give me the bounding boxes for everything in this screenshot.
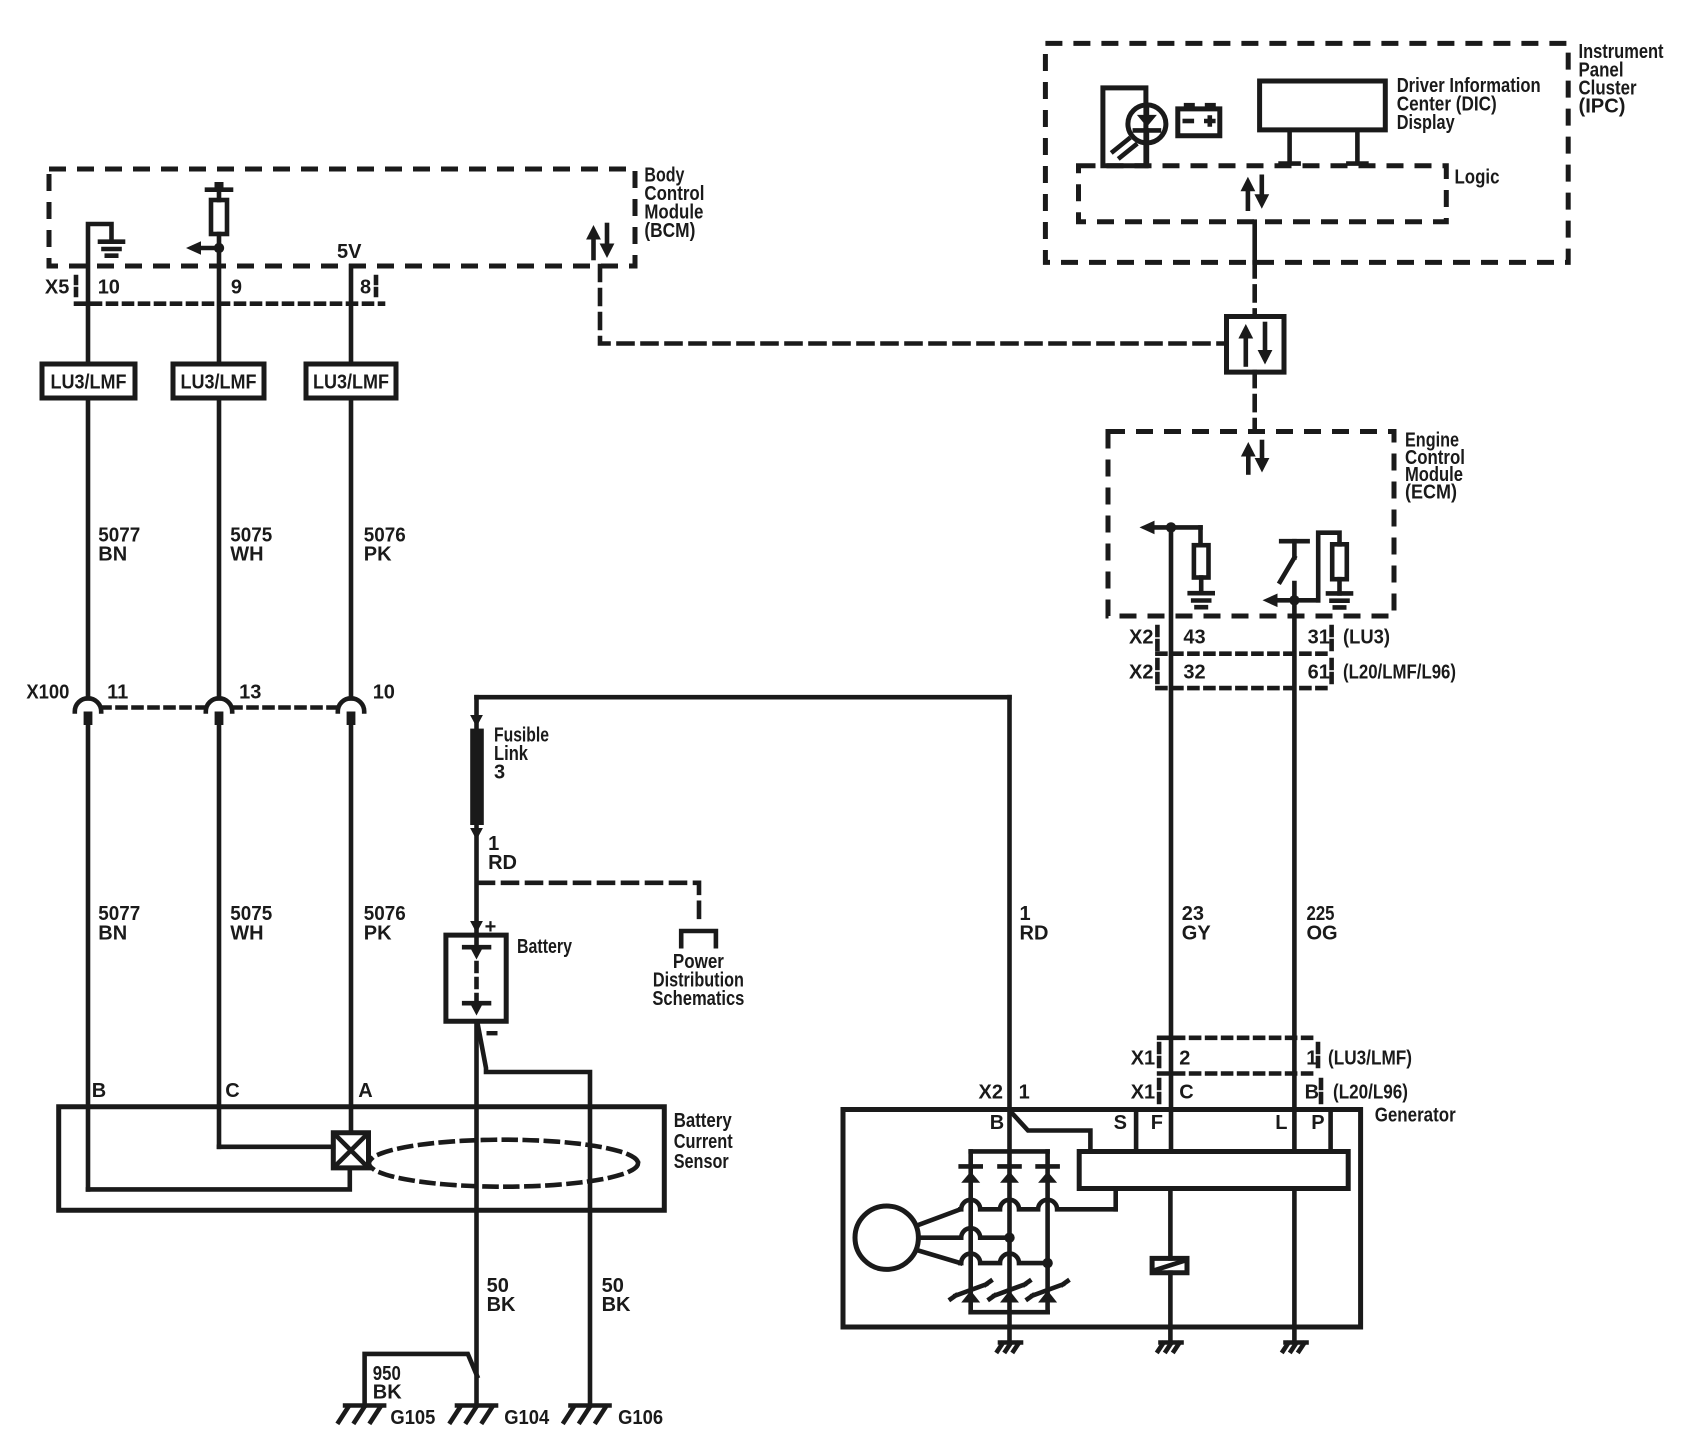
wire 5075 WH (lower run) <box>217 725 222 1147</box>
svg-text:BK: BK <box>602 1294 631 1316</box>
svg-text:WH: WH <box>230 544 263 566</box>
wire terminal L to generator ground <box>1292 1189 1297 1343</box>
wire 50 BK to G106 (through sensor) <box>588 1210 593 1405</box>
label circuit 23 GY <box>1182 903 1212 945</box>
battery telltale icon <box>1178 103 1220 136</box>
generator box <box>843 1110 1361 1328</box>
svg-text:P: P <box>1311 1112 1324 1134</box>
ground (generator internal, B) <box>1000 1340 1021 1345</box>
wire 5077 BN (upper run) <box>86 398 91 698</box>
svg-text:(LU3): (LU3) <box>1343 626 1390 648</box>
svg-text:Schematics: Schematics <box>652 988 744 1010</box>
svg-text:B: B <box>1305 1082 1319 1104</box>
wire 5075 WH (upper run) <box>217 398 222 698</box>
connector terminal pin 10 <box>338 698 364 725</box>
svg-text:61: 61 <box>1308 662 1330 684</box>
svg-text:G106: G106 <box>618 1407 663 1429</box>
svg-text:9: 9 <box>231 277 242 299</box>
svg-text:BK: BK <box>373 1382 402 1404</box>
label ECM name <box>1405 430 1465 504</box>
label battery minus <box>487 1031 498 1035</box>
wire ECM pin 43/32 (23 GY) <box>1169 527 1174 1151</box>
label circuit 5075 WH (lower) <box>230 903 272 945</box>
svg-text:(BCM): (BCM) <box>644 220 695 242</box>
connector X2 rows (ECM) <box>1157 627 1331 688</box>
battery <box>446 935 506 1021</box>
svg-text:1: 1 <box>1019 1082 1030 1104</box>
svg-text:Current: Current <box>674 1131 733 1153</box>
wire sensor pin C internal run <box>219 1145 333 1150</box>
logic box (IPC), dashed <box>1079 166 1447 222</box>
svg-text:X100: X100 <box>26 682 69 704</box>
battery current sensor box <box>59 1107 665 1210</box>
svg-text:BN: BN <box>98 544 127 566</box>
fusible link 3 <box>470 729 484 825</box>
svg-text:B: B <box>92 1080 106 1102</box>
svg-text:BK: BK <box>487 1294 516 1316</box>
rectifier diode top 2 <box>1000 1166 1020 1182</box>
label Driver Information Center (DIC) Display <box>1397 75 1541 134</box>
svg-text:1: 1 <box>1306 1048 1317 1070</box>
svg-text:B: B <box>990 1112 1004 1134</box>
module box Body Control Module (BCM), dashed <box>49 169 635 266</box>
svg-text:8: 8 <box>360 277 371 299</box>
ground (inside BCM, pin 10 circuit) <box>88 224 123 364</box>
svg-text:Generator: Generator <box>1375 1105 1456 1127</box>
label circuit 5077 BN (lower) <box>98 903 140 945</box>
label Fusible Link 3 <box>494 725 549 784</box>
wire ECM pin 31/61 (225 OG) <box>1292 583 1297 1152</box>
svg-text:X5: X5 <box>45 277 69 299</box>
svg-text:(L20/L96): (L20/L96) <box>1333 1082 1408 1104</box>
wire BCM pin 8 (5V) stub <box>349 266 354 364</box>
wire battery negative main cable <box>474 1021 479 1405</box>
label circuit 950 BK <box>373 1363 402 1404</box>
label circuit 50 BK (right) <box>602 1275 631 1316</box>
wire serial data dashed (IPC to link box) <box>1252 262 1257 316</box>
svg-text:BN: BN <box>98 923 127 945</box>
label circuit 1 RD (battery feed) <box>488 833 517 874</box>
svg-text:11: 11 <box>107 682 128 704</box>
diode bridge bottom bus <box>971 1310 1048 1315</box>
module box Engine Control Module (ECM), dashed <box>1108 432 1394 617</box>
connector X1 rows (generator) <box>1159 1038 1321 1102</box>
stator phase lead lower <box>917 1250 961 1263</box>
svg-text:5V: 5V <box>337 241 362 263</box>
svg-text:PK: PK <box>364 544 392 566</box>
label circuit 5076 PK <box>364 525 406 566</box>
svg-text:G104: G104 <box>504 1407 550 1429</box>
wire serial data dashed (link box to ECM) <box>1252 372 1257 431</box>
svg-text:OG: OG <box>1307 923 1338 945</box>
sensor element (X box) <box>333 1133 368 1168</box>
connector X100 row <box>102 705 339 710</box>
wire IPC logic to IPC edge <box>1252 222 1257 263</box>
label IPC name <box>1579 41 1664 118</box>
wire fusible link drop with arrowhead <box>470 697 483 728</box>
ground (generator internal, L) <box>1286 1340 1307 1345</box>
diode bridge top bus <box>971 1149 1048 1154</box>
resistor (inside BCM, pull-up on pin 9) <box>207 182 231 364</box>
svg-text:LU3/LMF: LU3/LMF <box>181 371 257 393</box>
ground (inside ECM, left) <box>1190 593 1213 607</box>
wire battery positive (1 RD) with arrowhead <box>470 825 483 945</box>
label circuit 225 OG <box>1307 903 1338 945</box>
rectifier branch left (vertical) <box>968 1151 973 1312</box>
signal arrow (ECM pin 31 driver) <box>1263 594 1319 608</box>
wire field to generator ground <box>1168 1273 1173 1343</box>
svg-text:RD: RD <box>1020 923 1049 945</box>
wire serial data dashed (BCM to link box) <box>600 266 1227 344</box>
ground G104 <box>457 1403 496 1408</box>
label Power Distribution Schematics <box>652 951 744 1010</box>
serial data arrows (IPC logic) <box>1241 177 1270 209</box>
svg-text:LU3/LMF: LU3/LMF <box>51 371 127 393</box>
wire terminal P stub <box>1328 1110 1333 1152</box>
driver information center DIC display <box>1260 81 1386 164</box>
svg-text:F: F <box>1151 1112 1163 1134</box>
wire 950 BK to G105 <box>365 1354 478 1406</box>
svg-text:X2: X2 <box>1129 662 1153 684</box>
ground G105 <box>345 1403 384 1408</box>
rotor (stator winding source circle) <box>855 1206 918 1269</box>
ground (generator internal, field) <box>1161 1340 1182 1345</box>
wire 5076 PK (lower run) <box>349 725 354 1133</box>
svg-text:WH: WH <box>230 923 263 945</box>
rectifier diode top 3 <box>1038 1166 1058 1182</box>
svg-text:X2: X2 <box>979 1082 1003 1104</box>
svg-text:X2: X2 <box>1129 626 1153 648</box>
svg-text:GY: GY <box>1182 923 1212 945</box>
off-page connector symbol (power distribution) <box>681 931 716 946</box>
wire battery negative branch to G106 <box>478 1023 591 1210</box>
svg-text:(L20/LMF/L96): (L20/LMF/L96) <box>1343 662 1456 684</box>
svg-text:31: 31 <box>1308 626 1330 648</box>
svg-text:(ECM): (ECM) <box>1405 481 1457 503</box>
svg-text:PK: PK <box>364 923 392 945</box>
stator phase lead upper <box>917 1209 961 1225</box>
label circuit 50 BK (left) <box>487 1275 516 1316</box>
switch / driver (inside ECM, pin 31 control) <box>1280 541 1308 582</box>
svg-text:3: 3 <box>494 762 505 784</box>
wire B+ jog to regulator <box>1011 1112 1090 1152</box>
svg-text:10: 10 <box>98 277 120 299</box>
stator phase winding upper (wavy) <box>960 1200 1115 1210</box>
svg-text:Battery: Battery <box>674 1110 733 1132</box>
ground (inside ECM, right) <box>1328 593 1351 607</box>
wire generator B+ through bridge to ground <box>1007 1110 1012 1343</box>
wire sensor pin B internal run <box>88 1168 350 1190</box>
avalanche diode bottom 3 <box>1028 1281 1068 1303</box>
svg-text:(LU3/LMF): (LU3/LMF) <box>1328 1048 1412 1070</box>
label circuit 5077 BN <box>98 525 140 566</box>
avalanche diode bottom 2 <box>990 1281 1030 1303</box>
resistor (inside ECM, right pull-up) <box>1318 533 1347 601</box>
connector terminal pin 11 <box>75 698 101 725</box>
rectifier branch right (vertical) <box>1045 1151 1050 1312</box>
svg-text:G105: G105 <box>390 1407 435 1429</box>
voltage regulator box <box>1079 1152 1348 1189</box>
svg-text:13: 13 <box>239 682 261 704</box>
signal arrow (ECM pin 43 input) <box>1140 521 1201 535</box>
svg-text:32: 32 <box>1183 662 1205 684</box>
module box Instrument Panel Cluster (IPC), dashed <box>1045 43 1568 262</box>
svg-text:10: 10 <box>373 682 395 704</box>
wire regulator to stator sense <box>1113 1189 1118 1210</box>
field winding symbol (rotor coil) <box>1152 1258 1187 1272</box>
svg-text:C: C <box>1179 1082 1193 1104</box>
avalanche diode bottom 1 <box>951 1281 991 1303</box>
wire dashed reference to power distribution <box>479 883 699 926</box>
svg-text:43: 43 <box>1183 626 1205 648</box>
stator phase winding middle (wavy) <box>918 1228 1014 1243</box>
svg-text:Display: Display <box>1397 112 1456 134</box>
svg-text:X1: X1 <box>1131 1048 1155 1070</box>
option box LU3/LMF (left) <box>42 364 135 398</box>
serial data link box <box>1227 317 1285 373</box>
serial data arrows (ECM) <box>1241 442 1270 473</box>
charge indicator telltale (lamp with reflector) <box>1103 88 1166 166</box>
option box LU3/LMF (right) <box>306 364 396 398</box>
wire generator B+ feed (top horizontal, 1 RD) <box>477 695 1010 700</box>
svg-text:LU3/LMF: LU3/LMF <box>313 371 389 393</box>
connector terminal pin 13 <box>206 698 232 725</box>
svg-text:S: S <box>1114 1112 1127 1134</box>
ground G106 <box>571 1403 610 1408</box>
label circuit 5075 WH <box>230 525 272 566</box>
svg-text:Battery: Battery <box>517 936 573 958</box>
signal arrow (BCM pin 9 input) <box>186 241 224 255</box>
svg-text:L: L <box>1275 1112 1287 1134</box>
stator phase winding lower (wavy) <box>960 1254 1052 1269</box>
svg-text:A: A <box>358 1080 372 1102</box>
wire 5076 PK (upper run) <box>349 398 354 698</box>
connector X5 row (pins 10, 9, 8) <box>76 277 383 304</box>
serial data arrows (BCM) <box>586 225 614 258</box>
label BCM name <box>644 164 704 242</box>
svg-text:+: + <box>485 916 497 938</box>
rectifier diode top 1 <box>961 1166 981 1182</box>
svg-text:Sensor: Sensor <box>674 1151 729 1173</box>
wire 5077 BN (lower run) <box>86 725 91 1189</box>
sensor sense loop (dashed ellipse) <box>369 1140 638 1187</box>
svg-text:Logic: Logic <box>1455 167 1500 189</box>
resistor (inside ECM, on pin 43 line) <box>1194 527 1209 591</box>
label Battery Current Sensor <box>674 1110 733 1173</box>
wire terminal S stub <box>1134 1110 1139 1152</box>
svg-text:C: C <box>225 1080 239 1102</box>
svg-text:2: 2 <box>1179 1048 1190 1070</box>
svg-text:(IPC): (IPC) <box>1579 96 1626 118</box>
option box LU3/LMF (middle) <box>173 364 264 398</box>
svg-text:X1: X1 <box>1131 1082 1155 1104</box>
wire generator B+ vertical (1 RD) <box>1007 697 1012 1109</box>
svg-text:RD: RD <box>488 852 517 874</box>
label circuit 5076 PK (lower) <box>364 903 406 945</box>
serial data arrows (link box) <box>1238 324 1272 365</box>
wire terminal F to field (23 GY continuation) <box>1168 1189 1173 1259</box>
label circuit 1 RD (vertical run) <box>1020 903 1049 945</box>
